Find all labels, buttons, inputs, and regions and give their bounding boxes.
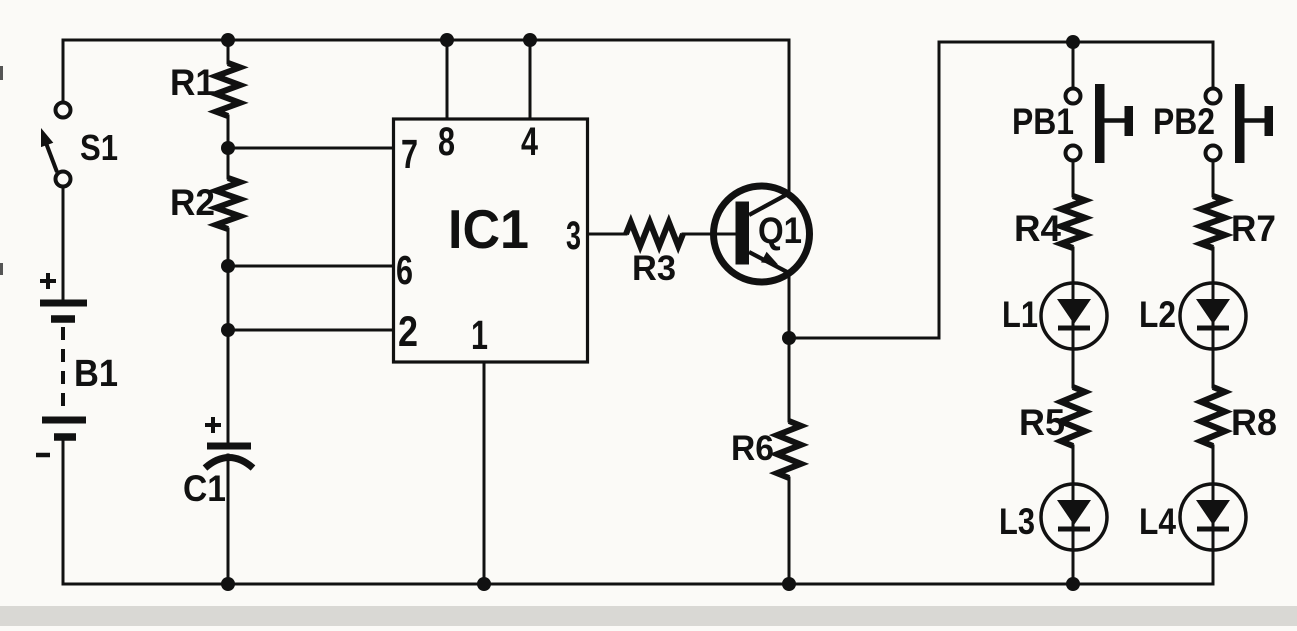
wire: bottom ground rail [63, 583, 1213, 586]
svg-text:R3: R3 [632, 249, 676, 288]
wire: switch to battery [62, 187, 65, 301]
wire: pin 6 line [228, 265, 393, 268]
wire: PB2 drop [1212, 42, 1215, 88]
svg-text:7: 7 [401, 131, 418, 177]
scanner band at bottom [0, 606, 1297, 626]
wire: pin 7 line [228, 147, 393, 150]
wire: PB1 drop [1072, 42, 1075, 88]
LED L3 [1041, 484, 1107, 550]
LED L1 [1041, 283, 1107, 349]
node: top rail junction pin 4 [523, 33, 537, 47]
wire: Q1 collector drop from top rail [788, 40, 791, 193]
pushbutton PB2 [1206, 89, 1221, 104]
svg-text:2: 2 [398, 308, 418, 356]
wire: R7 through L2 to R8 [1212, 248, 1215, 387]
svg-text:PB1: PB1 [1012, 101, 1074, 142]
svg-text:B1: B1 [74, 353, 118, 395]
svg-text:R5: R5 [1019, 402, 1065, 443]
node: bottom rail junction at C1 [221, 577, 235, 591]
svg-text:8: 8 [438, 120, 455, 164]
resistor R8 [1201, 387, 1225, 446]
svg-text:6: 6 [396, 247, 413, 293]
svg-text:R1: R1 [170, 62, 215, 103]
node: top rail junction at R1 [221, 33, 235, 47]
svg-text:4: 4 [521, 120, 539, 164]
wire: pin 2 line [228, 329, 393, 332]
node: bottom rail junction at pin 1 [477, 577, 491, 591]
wire: R8 through L4 to bottom rail [1212, 446, 1215, 584]
resistor R5 [1061, 387, 1085, 446]
svg-text:R8: R8 [1231, 402, 1277, 443]
wire: PB1 to R4 [1072, 161, 1075, 196]
wire: emitter node right and up to lamp rail [789, 42, 939, 338]
capacitor C1 [205, 417, 253, 468]
wire: R1 to R2 [227, 116, 230, 178]
node: R1/R2 junction (pin 7) [221, 141, 235, 155]
wire: pin 4 drop [529, 40, 532, 119]
wire: left vertical from top rail to switch S1 [62, 40, 65, 102]
resistor R7 [1201, 196, 1225, 248]
svg-text:C1: C1 [183, 468, 226, 509]
wire: lamp supply rail [939, 41, 1213, 44]
svg-text:R2: R2 [170, 182, 215, 223]
wire: pin 8 drop [446, 40, 449, 119]
op-amp/timer IC1 box [394, 119, 588, 362]
node: emitter junction [782, 331, 796, 345]
svg-text:Q1: Q1 [758, 210, 802, 251]
svg-text:S1: S1 [80, 127, 118, 168]
svg-text:3: 3 [566, 214, 581, 258]
pushbutton PB1 [1066, 89, 1081, 104]
node: bottom rail junction at L3 [1066, 577, 1080, 591]
wire: PB2 to R7 [1212, 161, 1215, 196]
transistor Q1 [714, 186, 810, 282]
wire: R4 through L1 to R5 [1072, 248, 1075, 387]
battery B1 [36, 273, 87, 455]
node: bottom rail junction at R6 [782, 577, 796, 591]
switch S1 [41, 103, 71, 187]
node: R2/C1 junction (pin 6) [221, 259, 235, 273]
wire: R1/R2 column top [227, 40, 230, 63]
wire: battery to bottom rail [62, 437, 65, 584]
svg-text:R7: R7 [1231, 208, 1276, 249]
wire: R5 through L3 to bottom rail [1072, 446, 1075, 584]
wire: R2 down to C1 [227, 229, 230, 443]
wire: top supply rail [63, 39, 789, 42]
svg-text:L1: L1 [1002, 294, 1038, 335]
svg-text:IC1: IC1 [448, 198, 529, 260]
scan speck left edge [0, 66, 3, 80]
svg-text:R6: R6 [731, 429, 774, 468]
node: pin 2 junction [221, 323, 235, 337]
svg-text:L4: L4 [1139, 501, 1176, 542]
LED L4 [1180, 484, 1246, 550]
resistor R3 [626, 222, 683, 246]
svg-text:1: 1 [471, 312, 488, 358]
resistor R6 [777, 421, 801, 478]
node: top rail junction pin 8 [440, 33, 454, 47]
svg-text:R4: R4 [1014, 208, 1061, 249]
svg-text:L3: L3 [999, 501, 1035, 542]
wire: pin 3 to R3 [588, 233, 627, 236]
resistor R4 [1061, 196, 1085, 248]
wire: pin 1 to bottom rail [483, 362, 486, 584]
wire: R3 to Q1 base [683, 233, 736, 236]
resistor R2 [216, 178, 240, 229]
resistor R1 [216, 63, 240, 116]
LED L2 [1180, 283, 1246, 349]
svg-text:PB2: PB2 [1153, 101, 1215, 142]
wire: R6 to bottom rail [788, 478, 791, 584]
wire: C1 to bottom rail [227, 455, 230, 584]
svg-text:L2: L2 [1139, 294, 1176, 335]
wire: Q1 emitter down [788, 272, 791, 421]
node: lamp rail junction at PB1 [1066, 35, 1080, 49]
